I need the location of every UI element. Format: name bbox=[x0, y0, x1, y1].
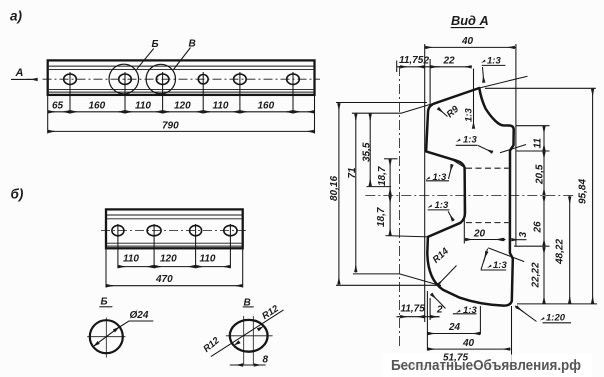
svg-text:20,5: 20,5 bbox=[535, 164, 546, 185]
hole b4 bbox=[224, 225, 237, 235]
view arrow А bbox=[11, 78, 32, 80]
extension line 2 bottom bbox=[429, 298, 431, 320]
extension x=516 bbox=[515, 44, 517, 246]
detail Б centerlines bbox=[87, 336, 125, 338]
svg-text:20: 20 bbox=[473, 229, 486, 240]
bar a bottom chamfer line 2 bbox=[49, 91, 314, 93]
top extension for 80,16 bbox=[336, 102, 427, 104]
extension line 80,16 bottom bbox=[336, 284, 441, 286]
svg-text:65: 65 bbox=[52, 101, 64, 112]
extension line hole a4 bbox=[202, 72, 204, 114]
vertical axis dash-dot bbox=[399, 66, 401, 348]
R12 diagonal bbox=[211, 310, 284, 357]
dim 11,75 / 2 / 22 top bbox=[397, 66, 472, 68]
svg-text:11: 11 bbox=[533, 138, 544, 149]
bar b chamfer lines bbox=[107, 214, 242, 216]
left dim 18,7 upper bbox=[389, 159, 391, 196]
extension line bar b right edge bbox=[242, 249, 244, 288]
hole hidden dashed lines bbox=[466, 167, 509, 169]
extension stub 18,7 upper top bbox=[384, 158, 398, 160]
svg-text:40: 40 bbox=[461, 36, 474, 47]
svg-text:1:3: 1:3 bbox=[435, 200, 449, 211]
extension line bar b left edge bbox=[105, 249, 107, 288]
svg-text:Вид А: Вид А bbox=[451, 13, 489, 28]
extension line 24 left bbox=[426, 291, 428, 351]
svg-text:1:3: 1:3 bbox=[433, 172, 447, 183]
svg-text:80,16: 80,16 bbox=[329, 176, 340, 201]
extension line hole a2 bbox=[124, 72, 126, 114]
svg-text:18,7: 18,7 bbox=[377, 166, 388, 186]
svg-text:а): а) bbox=[10, 9, 23, 24]
detail В centerline bbox=[226, 335, 273, 337]
extension line bar a left edge bbox=[47, 95, 49, 134]
svg-text:В: В bbox=[189, 39, 196, 50]
chain dimension line bar b bbox=[118, 266, 230, 268]
extension line hole b4 bbox=[229, 224, 231, 268]
extension line hole b3 bbox=[195, 224, 197, 268]
svg-text:Б: Б bbox=[101, 297, 108, 308]
extension tick x=396.7 bbox=[396, 61, 398, 73]
extension line hole a5 bbox=[239, 72, 241, 114]
bar b top chamfer line 2 bbox=[107, 218, 242, 220]
svg-text:1:3: 1:3 bbox=[487, 56, 501, 67]
hole a5 bbox=[234, 74, 247, 84]
bar a top chamfer line bbox=[49, 65, 314, 67]
thin slope line through upper jog bbox=[500, 145, 526, 153]
dim 790 line bbox=[48, 130, 315, 132]
slope triangle flag 1:3 right bbox=[488, 248, 524, 262]
extension x=473.5 with down arrow bbox=[473, 69, 475, 122]
slope flag 1:3 bottom bbox=[456, 310, 461, 314]
hole b2 bbox=[147, 225, 161, 235]
extension line 20 left bbox=[463, 166, 465, 244]
extension line hole a1 bbox=[69, 72, 71, 114]
svg-text:2: 2 bbox=[423, 56, 430, 67]
svg-text:11,75: 11,75 bbox=[401, 304, 426, 315]
dim 51,75 bbox=[400, 365, 513, 367]
detail В ellipse bbox=[230, 320, 268, 352]
extension line hole b2 bbox=[153, 224, 155, 268]
left dim 71 bbox=[355, 113, 357, 272]
dim 20 bbox=[465, 239, 506, 241]
bar a top chamfer line 2 bbox=[49, 69, 314, 71]
slope flag 1:20 bottom right bbox=[515, 306, 537, 322]
bar b outline bbox=[106, 209, 243, 248]
bar a bottom chamfer line bbox=[49, 88, 314, 90]
label Б leader bbox=[137, 49, 154, 69]
svg-text:1:3: 1:3 bbox=[463, 135, 477, 146]
slope flag 1:3 mid (head underside) bbox=[456, 139, 461, 143]
svg-text:470: 470 bbox=[155, 274, 173, 285]
left dim 35,5 bbox=[369, 113, 371, 186]
svg-text:790: 790 bbox=[162, 121, 179, 132]
extension line 26 bottom bbox=[514, 245, 550, 247]
hole a2 bbox=[119, 74, 132, 84]
extension line 11 bottom bbox=[517, 150, 550, 152]
svg-text:40: 40 bbox=[462, 338, 475, 349]
hole a4 bbox=[198, 75, 208, 84]
extension line bottom right bbox=[517, 303, 597, 305]
svg-text:71: 71 bbox=[347, 167, 358, 179]
dim 3 bbox=[495, 239, 503, 241]
svg-text:Ø24: Ø24 bbox=[130, 310, 149, 321]
svg-text:8: 8 bbox=[263, 355, 269, 366]
svg-text:24: 24 bbox=[448, 322, 461, 333]
right dim 95,84 bbox=[592, 88, 594, 304]
svg-text:R12: R12 bbox=[260, 303, 281, 322]
detail В hole axis lines bbox=[243, 316, 245, 366]
svg-text:110: 110 bbox=[123, 254, 139, 265]
svg-text:110: 110 bbox=[213, 101, 229, 112]
extension stub 35,5 bottom bbox=[367, 186, 392, 188]
svg-text:1:3: 1:3 bbox=[463, 305, 477, 316]
left dim 18,7 lower bbox=[389, 196, 391, 236]
dim 24 bbox=[427, 333, 480, 335]
svg-text:18,7: 18,7 bbox=[376, 207, 387, 227]
svg-text:110: 110 bbox=[135, 101, 151, 112]
extension line bar a right edge bbox=[314, 95, 316, 134]
extension line 24 right bbox=[479, 306, 481, 335]
svg-text:26: 26 bbox=[533, 221, 544, 234]
extension line 11 top bbox=[516, 125, 550, 127]
watermark band bbox=[383, 355, 592, 377]
extension x=430.1 top bbox=[429, 59, 431, 104]
bar a centerline bbox=[43, 78, 321, 80]
extension line hole a6 bbox=[292, 72, 294, 114]
extension line 71 bottom bbox=[353, 274, 441, 286]
detail circle around hole a3 bbox=[146, 64, 175, 93]
hole a6 bbox=[287, 74, 300, 84]
svg-text:95,84: 95,84 bbox=[578, 179, 589, 204]
svg-text:22: 22 bbox=[443, 56, 456, 67]
bar b bottom chamfer line 2 bbox=[107, 245, 242, 247]
bar b centerline bbox=[101, 230, 248, 232]
right dim chain 11 / 20,5 / 26 / 22,22 bbox=[543, 126, 545, 304]
svg-text:48,22: 48,22 bbox=[555, 239, 566, 265]
hole b3 bbox=[190, 225, 202, 235]
hole a3 bbox=[156, 74, 169, 84]
detail circle around hole a2 bbox=[109, 64, 139, 94]
svg-text:Б: Б bbox=[152, 39, 159, 50]
detail Б circle bbox=[90, 320, 123, 353]
diameter arrow line bbox=[93, 327, 119, 347]
svg-text:120: 120 bbox=[174, 101, 191, 112]
svg-text:R9: R9 bbox=[445, 103, 462, 120]
profile outline bbox=[426, 88, 514, 306]
svg-text:22,22: 22,22 bbox=[531, 262, 542, 288]
svg-text:1:20: 1:20 bbox=[546, 313, 566, 324]
extension line 95,84 top bbox=[485, 87, 596, 89]
dim 40 bottom bbox=[427, 348, 510, 350]
bar a outline bbox=[48, 60, 315, 95]
top tangent extension left bbox=[352, 103, 434, 113]
svg-text:б): б) bbox=[11, 187, 24, 202]
hole b1 bbox=[112, 225, 124, 235]
svg-text:120: 120 bbox=[160, 254, 177, 265]
tangent stub fishing slope bbox=[452, 160, 465, 168]
right dim 48,22 bbox=[569, 196, 571, 304]
svg-text:110: 110 bbox=[200, 254, 216, 265]
svg-text:А: А bbox=[15, 67, 24, 79]
slope flag 1:3 fishing upper bbox=[426, 177, 431, 181]
dim 40 top bbox=[425, 46, 516, 48]
label В leader bbox=[174, 48, 191, 70]
leader to Ø24 bbox=[114, 321, 153, 331]
horizontal centerline bbox=[365, 195, 576, 197]
svg-text:160: 160 bbox=[258, 101, 275, 112]
svg-text:БесплатныеОбъявления.рф: БесплатныеОбъявления.рф bbox=[391, 357, 581, 374]
svg-text:11,75: 11,75 bbox=[399, 55, 424, 66]
extension line hole b1 bbox=[117, 224, 119, 268]
chain dimension line bar a bbox=[48, 111, 315, 113]
svg-text:3: 3 bbox=[518, 232, 529, 238]
svg-text:1:3: 1:3 bbox=[464, 108, 475, 122]
extension line 40 right bottom bbox=[511, 306, 513, 370]
slope flag 1:3 web lower bbox=[428, 205, 433, 209]
svg-text:35,5: 35,5 bbox=[362, 142, 373, 162]
svg-text:160: 160 bbox=[89, 101, 106, 112]
extension stub 18,7 lower bottom bbox=[386, 236, 430, 237]
hole a1 bbox=[64, 74, 77, 84]
dim 11,75 bottom bbox=[397, 316, 440, 318]
dim 8 bbox=[230, 364, 266, 366]
left dim 80,16 bbox=[338, 103, 340, 285]
svg-text:R14: R14 bbox=[431, 245, 452, 265]
long extension line x=424.7 bbox=[424, 44, 426, 322]
extension line hole a3 bbox=[162, 72, 164, 114]
top tangent extension right bbox=[479, 76, 527, 88]
dim 470 line bbox=[106, 285, 243, 287]
svg-text:1:3: 1:3 bbox=[493, 260, 507, 271]
svg-text:2: 2 bbox=[436, 305, 443, 316]
